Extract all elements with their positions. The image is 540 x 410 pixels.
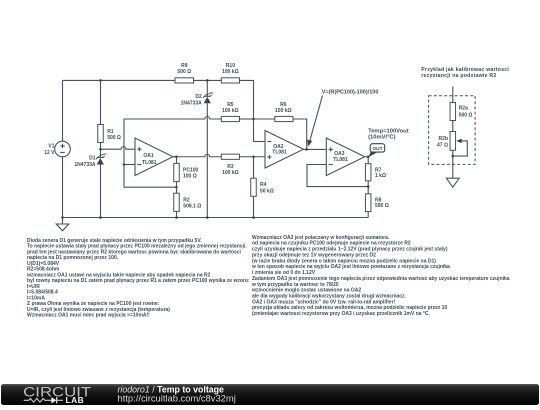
wire node to OA1 + input with hop over feedback <box>101 147 136 150</box>
resistor R5 (100 kΩ) <box>221 102 239 122</box>
wire OA3 output to R7 <box>365 157 368 164</box>
node OA3 output <box>367 155 370 158</box>
note: calibration example title <box>421 67 509 79</box>
wire R3 right to OA2 + node <box>239 156 265 158</box>
svg-text:Temp=100Vout: Temp=100Vout <box>368 128 409 134</box>
wire PC100 top stub <box>176 157 178 164</box>
wire OA3 - input feedback loop <box>307 165 368 187</box>
svg-text:R2a: R2a <box>459 105 468 111</box>
svg-text:100 kΩ: 100 kΩ <box>222 108 239 114</box>
wire feedback bottom to PC100 bottom <box>124 186 177 188</box>
wire top rail from V1 to R9 <box>63 79 176 81</box>
wire OA2 - input to vertical <box>254 141 266 143</box>
svg-text:http://circuitlab.com/c8v32mj: http://circuitlab.com/c8v32mj <box>118 393 236 404</box>
svg-text:(10mV/°C): (10mV/°C) <box>368 134 396 140</box>
note: Temp=100Vout (10mV/C) <box>368 128 409 140</box>
node PC100/R2 junction <box>175 186 178 189</box>
svg-text:TL081: TL081 <box>333 157 348 163</box>
wire V1 bottom to ground rail <box>62 157 64 218</box>
svg-text:100 Ω: 100 Ω <box>183 174 197 180</box>
svg-text:PC100: PC100 <box>183 167 199 173</box>
resistor R10 (100 kΩ) <box>221 63 239 83</box>
wire R4 bottom stub <box>253 196 255 217</box>
node V1/ground junction <box>61 216 64 219</box>
wire R2 stubs <box>176 187 178 217</box>
wire R9 to R10 <box>194 79 222 81</box>
svg-text:500 Ω: 500 Ω <box>107 135 121 141</box>
wire R2a to R2b <box>452 121 454 132</box>
svg-text:508.1 Ω: 508.1 Ω <box>183 204 201 210</box>
resistor R8 (595 Ω) <box>365 194 388 212</box>
resistor R1 (500 Ω) <box>98 125 121 143</box>
wire rail to R1 top <box>100 80 102 125</box>
resistor R2b potentiometer (47 Ω) <box>437 132 456 151</box>
wire D2 bottom to ground rail <box>206 103 208 217</box>
node D2 top on rail <box>206 79 209 82</box>
svg-text:R3: R3 <box>227 164 234 170</box>
note: V=(R(PC100)-100)/100 with arrow to OA2 output <box>307 89 378 146</box>
wire R10 right to corner down to OA2 minus <box>240 80 254 141</box>
node R2b wiper junction <box>452 155 455 158</box>
potentiometer R2b wiper arrow <box>453 139 468 157</box>
wire feedback vertical x=124 <box>123 119 125 187</box>
svg-text:12 V: 12 V <box>44 150 55 156</box>
svg-text:47 Ω: 47 Ω <box>437 142 448 148</box>
wire D2 top from rail <box>206 80 208 96</box>
svg-text:1N4733A: 1N4733A <box>74 162 96 168</box>
node D2 on ground rail <box>206 216 209 219</box>
wire OA2 output to OA3 + input <box>304 148 327 150</box>
voltage source V1 (12 V) <box>44 141 70 157</box>
wire D1 top stub <box>100 149 102 157</box>
node R2 on ground rail <box>175 216 178 219</box>
node OA1 - feedback junction <box>123 163 126 166</box>
svg-text:TL081: TL081 <box>272 149 287 155</box>
svg-text:500 Ω: 500 Ω <box>177 69 191 75</box>
svg-text:1N4733A: 1N4733A <box>181 100 203 106</box>
note: left explanation paragraph <box>26 238 250 319</box>
svg-text:500 Ω: 500 Ω <box>459 112 473 118</box>
svg-text:OA1: OA1 <box>143 153 154 159</box>
svg-text:V=(R(PC100)-100)/100: V=(R(PC100)-100)/100 <box>322 89 379 95</box>
svg-text:595 Ω: 595 Ω <box>375 203 389 209</box>
svg-text:R6: R6 <box>280 102 287 108</box>
op-amp OA2 (OA2 TL081) <box>265 131 304 169</box>
wire bottom ground rail <box>63 217 369 219</box>
svg-text:rezystancji na podstawie R2: rezystancji na podstawie R2 <box>421 73 496 79</box>
node junction R5/R6 on x=253.5 vertical <box>252 118 255 121</box>
svg-text:OUT: OUT <box>372 146 382 152</box>
ground symbol at V1 <box>56 218 69 231</box>
svg-text:1 kΩ: 1 kΩ <box>375 173 386 179</box>
label D2 1N4733A <box>181 94 203 106</box>
svg-text:100 kΩ: 100 kΩ <box>222 170 239 176</box>
svg-text:LAB: LAB <box>66 395 85 405</box>
wire OA1 - input to feedback vertical <box>124 164 135 166</box>
wire feedback top to R5 with hop over D2 <box>124 117 221 119</box>
label D1 1N4733A <box>74 156 96 168</box>
node junction R1 top on rail <box>99 79 102 82</box>
op-amp OA1 (OA1 TL081) <box>135 138 173 176</box>
ground symbol example <box>446 178 459 187</box>
resistor PC100 (100 Ω) <box>174 163 199 181</box>
svg-text:100 kΩ: 100 kΩ <box>275 108 292 114</box>
resistor R2 (508.1 Ω) <box>174 193 201 211</box>
node R4 on ground rail <box>252 216 255 219</box>
op-amp OA3 (OA3 TL081) <box>326 138 365 176</box>
wire R6 left from node <box>254 118 275 120</box>
svg-text:R1: R1 <box>107 129 114 135</box>
wire R4 top stub <box>253 157 255 178</box>
svg-text:OA3: OA3 <box>334 151 345 157</box>
footer bar <box>1 384 539 405</box>
CircuitLab logo <box>23 384 91 405</box>
wire R2b bottom to ground <box>452 150 454 178</box>
svg-text:R2: R2 <box>183 197 190 203</box>
resistor R4 (50 kΩ) <box>251 178 274 196</box>
node R3/R4/OA2+ junction <box>252 155 255 158</box>
svg-text:Wzmacniacz OA1 musi miec prad: Wzmacniacz OA1 musi miec prad wyjscia >=… <box>27 313 150 319</box>
svg-text:byl rowny napieciu na D1 zatem: byl rowny napieciu na D1 zatem prad plyn… <box>27 278 250 284</box>
wire R8 stubs to ground rail <box>367 187 369 218</box>
wire example top stub <box>452 87 454 103</box>
resistor R9 (500 Ω) <box>175 63 194 83</box>
wire OA1 output to R3 with hop over D2 <box>177 154 222 157</box>
wire R7 bottom stub <box>367 181 369 187</box>
svg-text:TL081: TL081 <box>142 160 157 166</box>
output flag OUT <box>368 144 385 158</box>
svg-text:100 kΩ: 100 kΩ <box>222 69 239 75</box>
svg-text:R10: R10 <box>226 63 235 69</box>
svg-text:(zmieniajac wartosci rezystoro: (zmieniajac wartosci rezystorow przy OA3… <box>252 311 431 317</box>
resistor R7 (1 kΩ) <box>365 164 386 181</box>
dashed box around calibration example <box>429 96 476 165</box>
wire R5 right to node <box>240 118 254 120</box>
wire PC100 bottom stub <box>176 182 178 188</box>
svg-text:50 kΩ: 50 kΩ <box>260 188 274 194</box>
wire D1 bottom to ground rail <box>100 165 102 218</box>
resistor R2a (500 Ω) <box>450 102 472 120</box>
wire R1 bottom to node <box>100 143 102 150</box>
wire R6 right corner down to OA2 output <box>293 119 307 149</box>
node R7/R8 feedback junction <box>367 185 370 188</box>
wire OA1 output to PC100 top <box>173 156 177 158</box>
svg-text:V1: V1 <box>48 144 54 150</box>
node OA1 output <box>175 155 178 158</box>
svg-text:R4: R4 <box>260 182 267 188</box>
resistor R3 (100 kΩ) <box>221 154 239 176</box>
svg-text:R9: R9 <box>181 63 188 69</box>
note: right explanation paragraph <box>251 235 510 317</box>
zener diode D1 (1N4733A) <box>96 154 105 165</box>
wire V1 top to +12V top rail <box>62 80 64 141</box>
zener diode D2 (1N4733A) <box>203 93 212 104</box>
node OA2 output junction <box>305 148 308 151</box>
svg-text:R2b: R2b <box>439 136 448 142</box>
resistor R6 (100 kΩ) <box>275 102 293 122</box>
svg-text:R5: R5 <box>227 102 234 108</box>
node R1/D1/OA1+ junction <box>99 148 102 151</box>
node D1 on ground rail <box>99 216 102 219</box>
svg-text:D2: D2 <box>195 94 202 100</box>
svg-text:D1: D1 <box>89 156 96 162</box>
